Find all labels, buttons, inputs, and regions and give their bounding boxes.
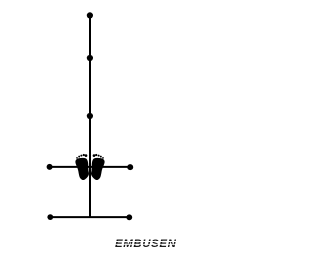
wire horizontal line lower [50, 216, 129, 218]
node left upper [47, 164, 53, 170]
logo EMBUSEN text [112, 238, 178, 250]
feet icon right foot [91, 154, 105, 180]
feet icon left foot [75, 154, 89, 180]
wire vertical main line [89, 15, 91, 217]
node top [87, 12, 93, 18]
node mid lower [87, 113, 93, 119]
node right lower [126, 214, 132, 220]
node mid upper [87, 55, 93, 61]
node left lower [47, 214, 53, 220]
wire horizontal line upper [50, 166, 131, 168]
node right upper [127, 164, 133, 170]
